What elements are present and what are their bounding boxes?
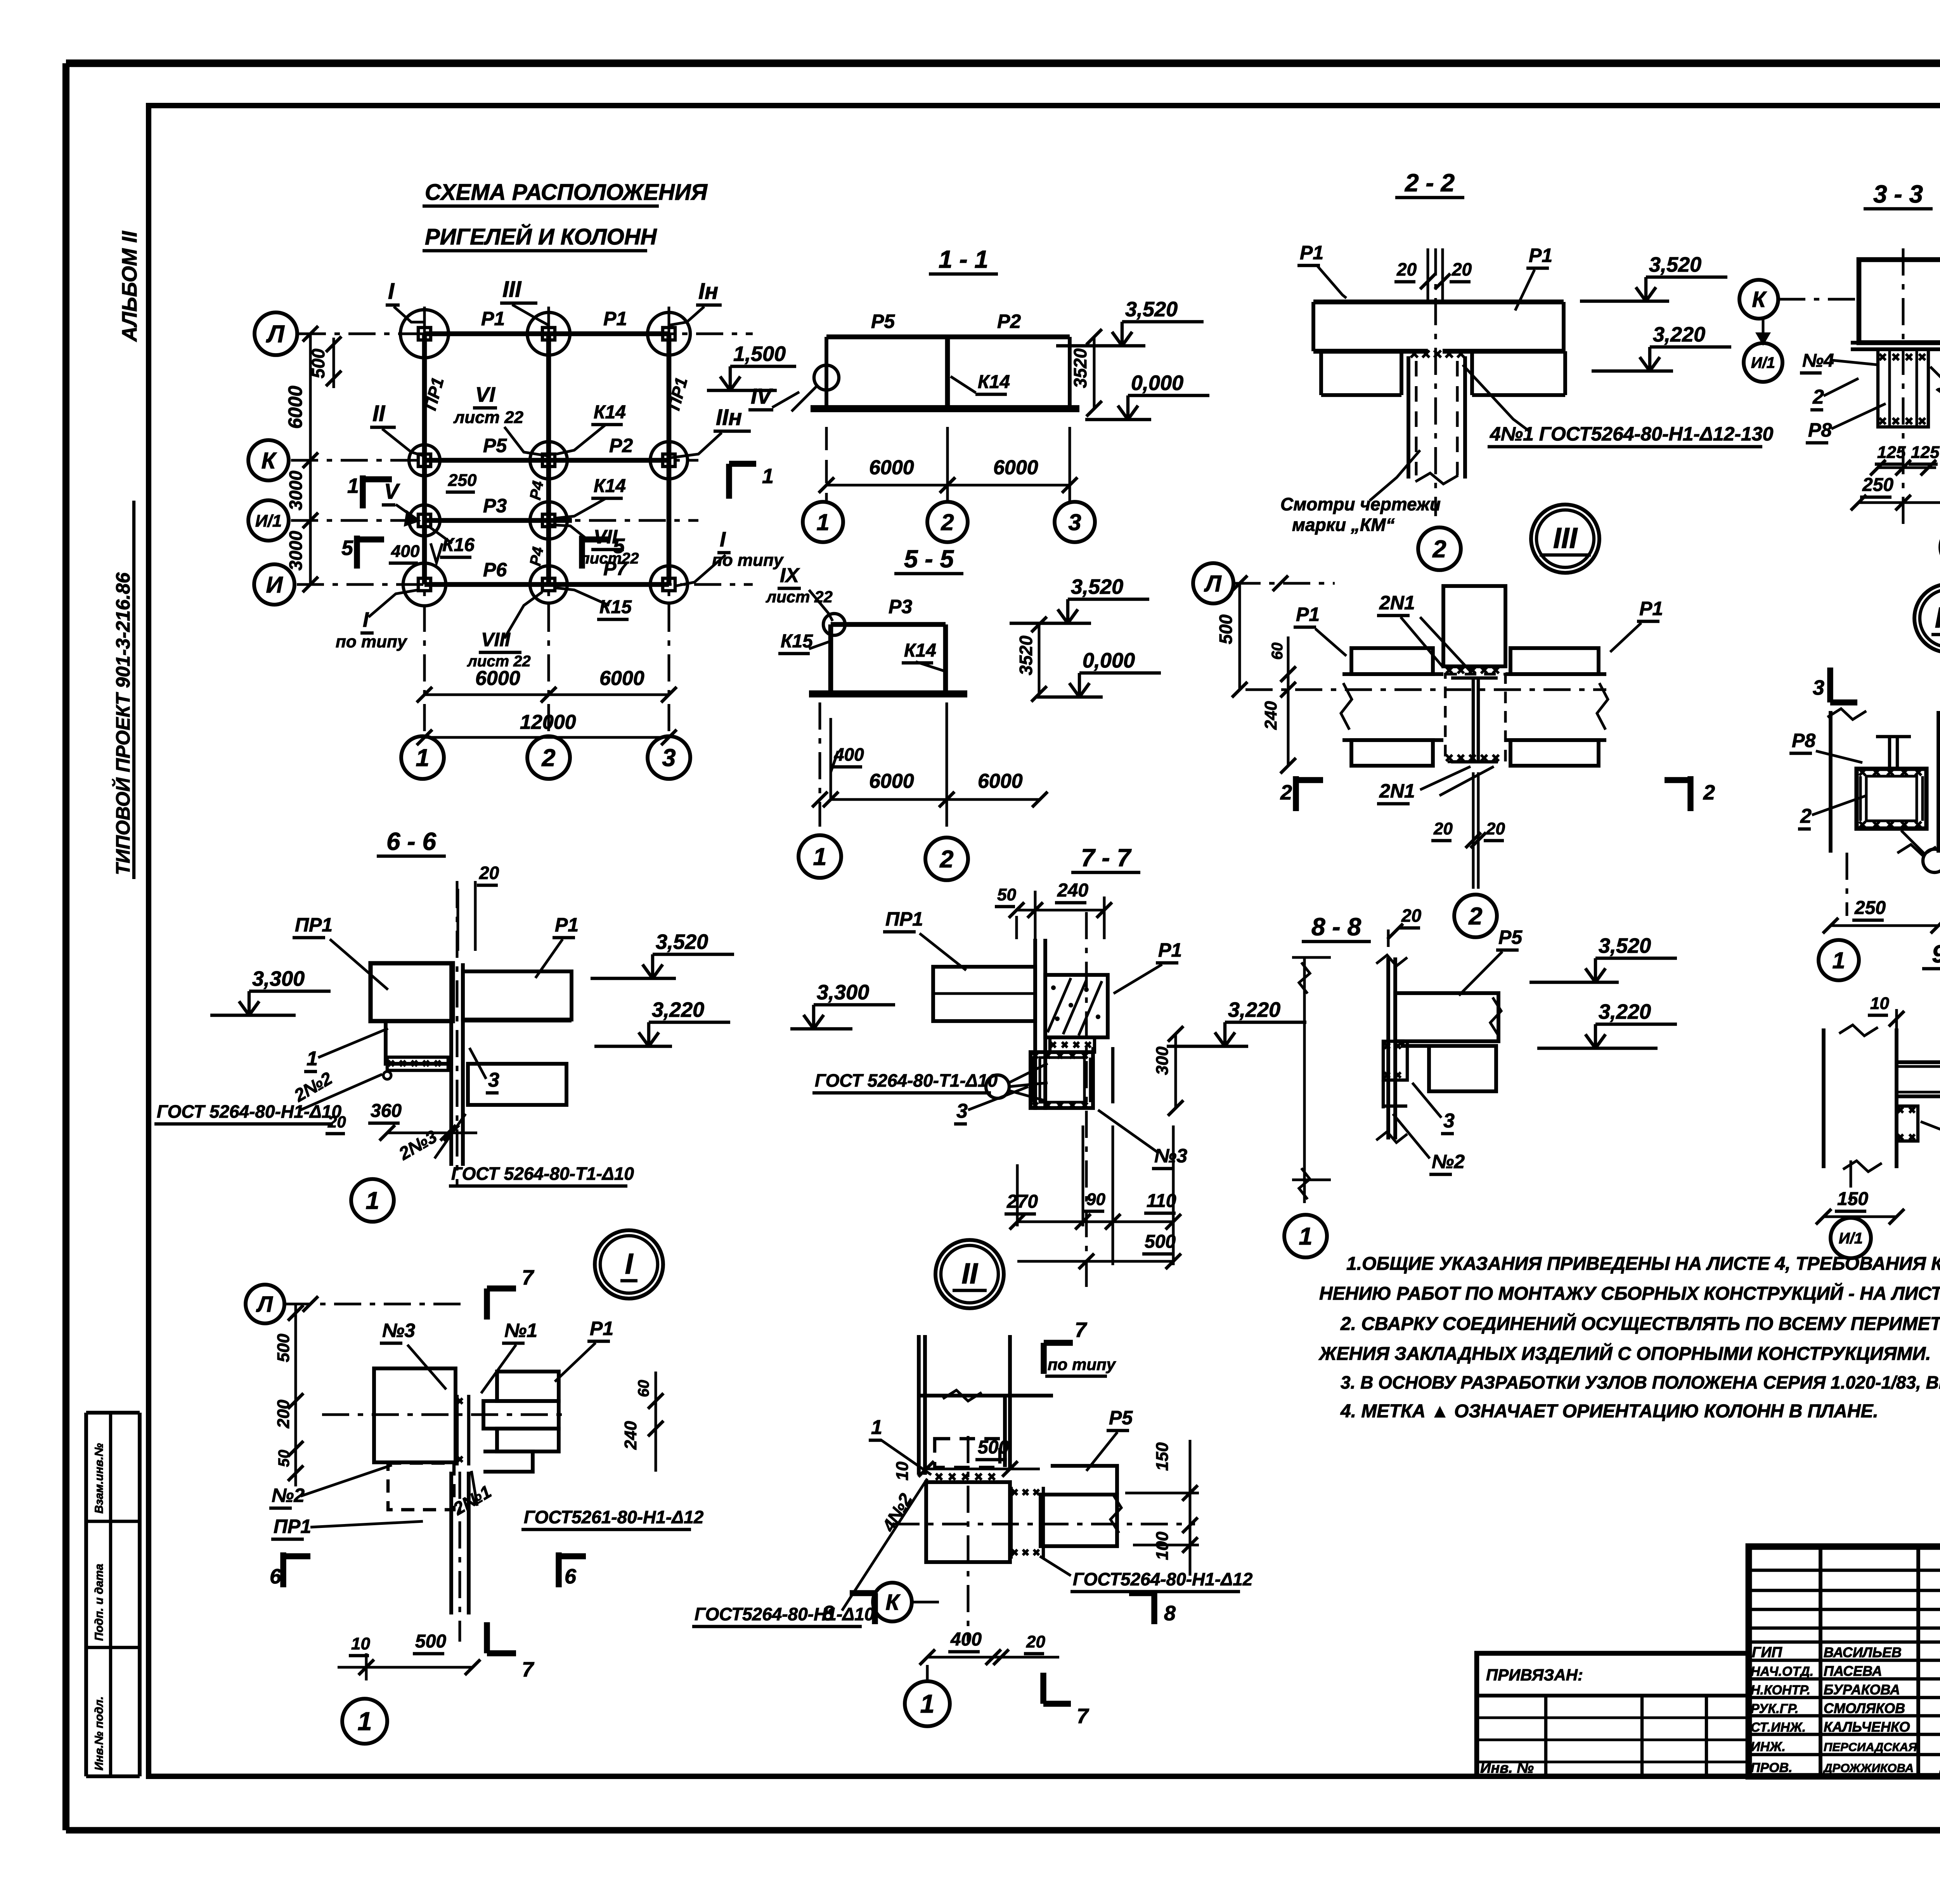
node I section marker 7 top	[487, 1266, 535, 1320]
section 8-8 levels	[1529, 934, 1677, 1048]
svg-text:3520: 3520	[1070, 348, 1090, 388]
svg-text:Р1: Р1	[1300, 242, 1323, 264]
section 1-1 bubble 3	[1055, 501, 1095, 542]
section 8-8 wall	[1376, 955, 1407, 1143]
svg-text:по типу: по типу	[712, 551, 784, 570]
node I dims left	[274, 1304, 303, 1486]
svg-text:БУРАКОВА: БУРАКОВА	[1824, 1682, 1900, 1698]
node callout II	[370, 401, 424, 456]
node I callout ПР1	[271, 1516, 423, 1539]
plan column node	[409, 505, 440, 536]
svg-text:20: 20	[479, 863, 499, 883]
beam Р4 axis 2	[546, 334, 551, 584]
svg-text:8: 8	[823, 1602, 834, 1625]
svg-text:Р1: Р1	[481, 308, 505, 329]
section 9-9 bracket	[1897, 1106, 1918, 1141]
svg-text:НЕНИЮ РАБОТ ПО МОНТАЖУ СБО: НЕНИЮ РАБОТ ПО МОНТАЖУ СБОРНЫХ КОНСТРУКЦ…	[1319, 1283, 1940, 1304]
node II bottom dims 400 20	[920, 1629, 1059, 1680]
section 6-6 beam Р1 right	[463, 971, 572, 1105]
svg-text:ВАСИЛЬЕВ: ВАСИЛЬЕВ	[1824, 1644, 1902, 1660]
section 5-5 bottom dims	[812, 702, 1048, 827]
svg-text:по типу: по типу	[336, 632, 408, 651]
svg-text:VI: VI	[475, 383, 495, 406]
beam line row К	[424, 458, 669, 463]
section 6-6 callout ПР1	[293, 914, 388, 990]
section 6-6 bubble 1	[351, 1179, 394, 1222]
svg-text:Р5: Р5	[1109, 1407, 1133, 1429]
svg-text:V: V	[384, 479, 400, 503]
node callout IIн	[669, 405, 751, 458]
section 5-5 frame	[809, 624, 967, 694]
beam line row Л	[424, 331, 669, 336]
svg-text:0,000: 0,000	[1083, 649, 1135, 672]
plan bottom dim 12000	[417, 711, 677, 745]
svg-text:IX: IX	[780, 564, 800, 587]
section 7-7 callout 3	[954, 1087, 1028, 1124]
svg-text:РИГЕЛЕЙ И КОЛОНН: РИГЕЛЕЙ И КОЛОНН	[425, 224, 657, 250]
svg-text:Р1: Р1	[1158, 939, 1182, 961]
node III plan dim 20 20 bottom	[1431, 772, 1505, 889]
svg-text:6000: 6000	[599, 667, 644, 690]
svg-text:Р1: Р1	[590, 1318, 613, 1339]
node II column box	[892, 1436, 1195, 1642]
grid bubble К	[248, 440, 289, 480]
node III plan axis Л bubble	[1193, 563, 1335, 603]
general notes	[1318, 1254, 1940, 1422]
svg-text:VIII: VIII	[481, 629, 511, 650]
section 6-6 callout 1	[304, 1028, 388, 1072]
svg-text:Р2: Р2	[609, 435, 633, 456]
svg-text:5: 5	[341, 536, 353, 560]
svg-text:ДРОЖЖИКОВА: ДРОЖЖИКОВА	[1822, 1761, 1914, 1775]
svg-text:№4: №4	[1802, 350, 1834, 371]
node I callout №1	[481, 1320, 537, 1393]
section 5-5 callout К15	[778, 631, 831, 654]
section 7-7 beam ПР1	[933, 967, 1035, 1021]
svg-text:1: 1	[347, 474, 359, 498]
beam line row И	[424, 582, 669, 587]
svg-text:3,220: 3,220	[1599, 1000, 1651, 1023]
svg-text:Взам.инв.№: Взам.инв.№	[93, 1443, 106, 1514]
plan column node	[409, 445, 440, 476]
node I column below	[388, 1463, 469, 1642]
section 2-2 note Смотри чертежи марки КМ	[1280, 450, 1441, 535]
svg-text:И/1: И/1	[1839, 1230, 1863, 1247]
svg-text:400: 400	[834, 744, 864, 765]
svg-text:125: 125	[1877, 443, 1906, 462]
node II dims 10 500 top	[893, 1437, 1040, 1481]
svg-text:6000: 6000	[475, 667, 520, 690]
node III plan label Р1 left	[1294, 603, 1346, 656]
plan column node	[530, 502, 567, 539]
svg-text:90: 90	[1086, 1190, 1105, 1209]
svg-text:1: 1	[357, 1707, 372, 1736]
section 1-1 bottom dims	[819, 427, 1077, 501]
grid bubble И	[254, 564, 294, 605]
svg-text:270: 270	[1006, 1191, 1038, 1212]
svg-text:IV: IV	[751, 384, 773, 408]
svg-text:I: I	[625, 1247, 634, 1280]
svg-text:Р5: Р5	[483, 435, 507, 456]
svg-text:1: 1	[871, 1416, 882, 1439]
svg-text:3,300: 3,300	[817, 981, 869, 1004]
svg-text:К: К	[885, 1590, 901, 1615]
plan axis И	[297, 583, 753, 586]
svg-text:К14: К14	[978, 372, 1010, 392]
node callout III top	[500, 277, 549, 325]
svg-text:ПРОВ.: ПРОВ.	[1751, 1760, 1793, 1775]
plan axis 2	[547, 307, 550, 734]
node IV wall	[1827, 709, 1938, 916]
plan column node	[403, 563, 446, 606]
section 7-7 dims 50 240 top	[995, 880, 1112, 939]
section 9-9 dim 10	[1868, 994, 1904, 1028]
svg-text:ГОСТ5264-80-Н1-Δ10: ГОСТ5264-80-Н1-Δ10	[695, 1604, 875, 1624]
section 7-7 concrete beam Р1 hatched	[1045, 975, 1108, 1037]
section 2-2 column	[1408, 350, 1465, 484]
section 5-5 bubble 2	[925, 838, 968, 880]
node I column	[322, 1368, 570, 1462]
svg-text:II: II	[961, 1257, 979, 1290]
svg-text:10: 10	[1870, 994, 1889, 1013]
svg-text:10: 10	[351, 1634, 370, 1653]
section 5-5 callout IX лист 22	[766, 564, 833, 621]
node IV bubble 1	[1819, 940, 1859, 980]
svg-text:250: 250	[1862, 475, 1893, 495]
node II section marker 7 bottom	[1043, 1673, 1090, 1728]
svg-text:ПР1: ПР1	[274, 1516, 311, 1537]
node I section marker 6 left	[270, 1552, 310, 1588]
svg-text:ПРИВЯЗАН:: ПРИВЯЗАН:	[1486, 1666, 1583, 1684]
node I section marker 7 bottom	[487, 1622, 535, 1681]
svg-text:240: 240	[1261, 701, 1280, 730]
svg-text:лист22: лист22	[579, 550, 639, 567]
svg-text:Р1: Р1	[1529, 245, 1552, 266]
svg-text:3,520: 3,520	[656, 930, 708, 954]
svg-text:ИНЖ.: ИНЖ.	[1751, 1739, 1786, 1754]
svg-text:РУК.ГР.: РУК.ГР.	[1751, 1701, 1799, 1716]
svg-text:IIн: IIн	[716, 405, 742, 430]
node III plan label Р1 right	[1610, 598, 1663, 652]
svg-text:по типу: по типу	[1048, 1355, 1117, 1373]
section 8-8 callout Р5	[1459, 926, 1523, 995]
svg-text:Смотри чертежи: Смотри чертежи	[1280, 494, 1441, 514]
plan column node	[650, 442, 688, 479]
svg-text:1 - 1: 1 - 1	[939, 245, 988, 273]
node callout VII лист 22	[549, 525, 639, 567]
svg-text:ЖЕНИЯ ЗАКЛАДНЫХ ИЗДЕЛИЙ С: ЖЕНИЯ ЗАКЛАДНЫХ ИЗДЕЛИЙ С ОПОРНЫМИ КОНСТ…	[1318, 1343, 1931, 1364]
node II dims right 150 100	[1125, 1440, 1199, 1576]
svg-text:IV: IV	[1935, 601, 1940, 634]
section 8-8 callout №2	[1393, 1114, 1465, 1174]
grid bubble 1 bottom	[401, 736, 444, 779]
svg-text:3. В ОСНОВУ РАЗРАБОТКИ УЗЛО: 3. В ОСНОВУ РАЗРАБОТКИ УЗЛОВ ПОЛОЖЕНА СЕ…	[1341, 1372, 1940, 1392]
svg-text:10: 10	[893, 1462, 912, 1481]
svg-text:№2: №2	[272, 1484, 305, 1506]
top band line	[149, 103, 1940, 108]
binding box	[1477, 1653, 1749, 1776]
node I bubble 1	[342, 1699, 387, 1744]
left strip table	[86, 1413, 140, 1776]
svg-text:400: 400	[391, 542, 420, 561]
section 3-3 column	[1851, 260, 1940, 349]
svg-text:2: 2	[941, 509, 954, 535]
node II bubble 1	[905, 1681, 950, 1726]
node III plan dim 500	[1216, 576, 1247, 697]
section 1-1 dim 3520	[1070, 329, 1102, 416]
svg-text:1: 1	[920, 1690, 934, 1718]
svg-text:2: 2	[1703, 781, 1715, 804]
node circle I	[595, 1230, 663, 1299]
svg-text:СХЕМА РАСПОЛОЖЕНИЯ: СХЕМА РАСПОЛОЖЕНИЯ	[425, 180, 708, 205]
section 2-2 slab beams	[1313, 302, 1565, 395]
section 8-8 dim line left	[1292, 957, 1331, 1203]
plan column node	[530, 442, 567, 479]
section marker 1 left plan	[347, 474, 392, 508]
section 8-8 callout 3	[1412, 1083, 1455, 1134]
svg-text:240: 240	[621, 1421, 640, 1450]
svg-text:4. МЕТКА ▲ ОЗНАЧАЕТ ОРИЕНТАЦ: 4. МЕТКА ▲ ОЗНАЧАЕТ ОРИЕНТАЦИЮ КОЛОНН В …	[1340, 1401, 1878, 1422]
svg-text:К14: К14	[594, 402, 626, 423]
section marker 1 right plan	[729, 464, 774, 499]
svg-text:6000: 6000	[284, 386, 306, 429]
svg-text:№3: №3	[382, 1320, 415, 1341]
signature rows	[1751, 1640, 1940, 1775]
svg-text:Н.КОНТР.: Н.КОНТР.	[1751, 1683, 1810, 1698]
svg-text:ПР1: ПР1	[295, 914, 333, 936]
node II right plate	[1011, 1487, 1043, 1559]
section 2-2 column axis	[1434, 248, 1437, 516]
node II callout 1	[869, 1416, 931, 1475]
svg-text:КАЛЬЧЕНКО: КАЛЬЧЕНКО	[1824, 1719, 1910, 1735]
svg-text:Л: Л	[256, 1292, 273, 1317]
svg-text:3,520: 3,520	[1599, 934, 1651, 957]
svg-text:1: 1	[1299, 1223, 1312, 1250]
plan bottom dim 6000 span2	[541, 667, 677, 702]
grid bubble Л	[255, 312, 297, 355]
node I weld callout 2№1	[449, 1471, 704, 1529]
svg-text:1: 1	[416, 744, 429, 772]
section marker 3 left	[1813, 668, 1857, 702]
svg-text:Л: Л	[1204, 571, 1222, 597]
section 5-5 callout К14	[902, 640, 946, 671]
section 3-3 dim 250	[1851, 475, 1940, 510]
svg-text:20: 20	[1452, 259, 1472, 279]
svg-text:ГОСТ 5264-80-Т1-Δ10: ГОСТ 5264-80-Т1-Δ10	[451, 1164, 634, 1184]
svg-text:2N1: 2N1	[1379, 780, 1415, 802]
node IV callout 2	[1798, 796, 1866, 829]
node II weld callout ГОСТ Н1-Δ10 left	[692, 1479, 927, 1627]
svg-text:500: 500	[1145, 1231, 1176, 1252]
svg-text:НАЧ.ОТД.: НАЧ.ОТД.	[1751, 1664, 1814, 1679]
node III plan dims 60 240	[1261, 636, 1296, 773]
svg-text:2: 2	[1812, 386, 1824, 408]
svg-text:6000: 6000	[993, 456, 1038, 479]
svg-text:60: 60	[1269, 643, 1286, 660]
svg-text:3: 3	[488, 1069, 499, 1091]
plan column node	[527, 312, 570, 355]
section 1-1 column callout К14	[951, 372, 1010, 394]
svg-text:ТИПОВОЙ ПРОЕКТ 901-3-216.86: ТИПОВОЙ ПРОЕКТ 901-3-216.86	[112, 572, 134, 875]
svg-text:6 - 6: 6 - 6	[386, 827, 436, 855]
svg-text:3,520: 3,520	[1649, 253, 1701, 276]
svg-text:8 - 8: 8 - 8	[1311, 913, 1361, 941]
section 5-5 weld circle	[823, 614, 845, 635]
svg-text:5 - 5: 5 - 5	[904, 545, 954, 573]
svg-text:2: 2	[1432, 536, 1446, 563]
section marker 5 right plan	[582, 534, 625, 569]
svg-text:20: 20	[327, 1113, 346, 1131]
svg-text:2 - 2: 2 - 2	[1405, 169, 1455, 197]
svg-text:3520: 3520	[1016, 635, 1036, 675]
node II weld callout ГОСТ Н1-Δ12	[1040, 1556, 1253, 1592]
svg-text:240: 240	[1057, 880, 1088, 901]
svg-text:20: 20	[1396, 259, 1417, 279]
svg-text:110: 110	[1147, 1191, 1176, 1211]
node callout I по типу right	[675, 528, 784, 586]
section 7-7 callout №3	[1098, 1110, 1187, 1169]
svg-text:500: 500	[1216, 614, 1236, 644]
svg-text:20: 20	[1401, 905, 1422, 926]
svg-text:9 - 9: 9 - 9	[1932, 940, 1940, 968]
svg-text:Инв. №: Инв. №	[1480, 1760, 1534, 1776]
svg-text:К: К	[262, 447, 277, 473]
svg-text:I: I	[363, 608, 369, 631]
plan column node	[530, 566, 567, 603]
section 9-9 callout 5	[1921, 1122, 1940, 1149]
svg-text:Р8: Р8	[1808, 419, 1832, 441]
svg-text:250: 250	[448, 471, 477, 490]
svg-text:Р1: Р1	[1639, 598, 1663, 619]
svg-text:20: 20	[1026, 1632, 1045, 1651]
svg-text:СТ.ИНЖ.: СТ.ИНЖ.	[1751, 1720, 1806, 1735]
section 7-7 weld callout ГОСТ Т1	[812, 1063, 1048, 1100]
svg-text:2: 2	[1468, 903, 1482, 930]
section 3-3 weld callout 2№4	[1930, 367, 1940, 416]
section 6-6 dim 20 top	[458, 863, 499, 951]
node I axis Л bubble	[246, 1285, 462, 1323]
plan axis Л	[299, 333, 753, 335]
svg-text:3 - 3: 3 - 3	[1873, 180, 1923, 208]
svg-text:II: II	[372, 401, 386, 426]
svg-text:Р6: Р6	[483, 559, 507, 581]
svg-text:0,000: 0,000	[1131, 371, 1183, 395]
node I callout №3	[380, 1320, 446, 1389]
plan axis 1	[423, 307, 426, 734]
svg-text:И/1: И/1	[255, 512, 282, 531]
svg-text:7 - 7: 7 - 7	[1081, 844, 1132, 872]
svg-text:3000: 3000	[286, 470, 306, 510]
plan axis К	[291, 459, 698, 462]
svg-text:ПР1: ПР1	[885, 908, 923, 930]
node II К bubble	[873, 1583, 947, 1621]
node I weld strip	[457, 1395, 469, 1465]
section 2-2 weld callout	[1463, 365, 1774, 447]
svg-text:III: III	[502, 277, 522, 302]
plan dim 400	[389, 542, 442, 563]
svg-text:200: 200	[274, 1399, 293, 1429]
title block frame	[1749, 1547, 1940, 1776]
node III plan axis horizontal	[1245, 688, 1606, 691]
section 7-7 bearing plates	[1050, 1037, 1095, 1052]
node I bottom dims 10 500	[338, 1631, 480, 1680]
node III plan column top	[1443, 586, 1505, 673]
plan left dim 500	[308, 336, 341, 388]
node I callout №2	[269, 1465, 392, 1508]
section 6-6 callout 3	[469, 1048, 499, 1093]
svg-text:ГОСТ5264-80-Н1-Δ12: ГОСТ5264-80-Н1-Δ12	[1073, 1569, 1253, 1589]
svg-text:20: 20	[1433, 819, 1453, 838]
svg-text:3,220: 3,220	[1653, 323, 1705, 346]
svg-text:5: 5	[613, 534, 625, 558]
svg-text:К14: К14	[594, 476, 626, 496]
svg-text:3,300: 3,300	[252, 967, 305, 990]
svg-text:И/1: И/1	[1751, 354, 1775, 371]
svg-text:7: 7	[522, 1266, 535, 1289]
svg-text:№3: №3	[1154, 1145, 1187, 1167]
svg-text:К15: К15	[781, 631, 813, 652]
svg-text:III: III	[1553, 522, 1578, 554]
section 9-9 dim 150	[1816, 1189, 1904, 1224]
callout К14 lower	[556, 476, 626, 518]
section 1-1 bubble 1	[803, 501, 843, 542]
section 3-3 axis vertical	[1902, 248, 1905, 528]
plan axis 3	[668, 307, 670, 734]
grid bubble И/1	[248, 500, 289, 541]
svg-text:8: 8	[1164, 1602, 1176, 1625]
plan bottom dim 6000 span1	[417, 667, 556, 702]
svg-text:360: 360	[371, 1101, 402, 1121]
section 7-7 dim 300	[1153, 1026, 1183, 1116]
node callout VI лист 22	[453, 383, 549, 456]
section 7-7 callout ПР1	[883, 908, 966, 970]
svg-text:ГИП: ГИП	[1752, 1644, 1782, 1661]
node callout I по типу bottom	[336, 590, 418, 651]
svg-text:№2: №2	[1432, 1151, 1465, 1172]
node I dims right 60 240	[621, 1372, 663, 1472]
svg-text:3: 3	[956, 1100, 968, 1122]
svg-text:3,520: 3,520	[1125, 298, 1178, 321]
callout К14 upper	[556, 402, 626, 454]
section marker 5 left plan	[341, 536, 384, 569]
section 6-6 dims 20 360	[326, 1101, 477, 1141]
section 6-6 weld callout left	[154, 1068, 391, 1124]
svg-text:3,520: 3,520	[1071, 575, 1123, 598]
section 6-6 beam ПР1 section	[371, 963, 453, 1070]
svg-text:Iн: Iн	[698, 279, 718, 304]
node III plan label 2N1 top	[1377, 592, 1471, 671]
section 7-7 side plate	[1093, 1047, 1113, 1103]
section 3-3 dims 125 125	[1870, 443, 1940, 475]
svg-text:марки „КМ“: марки „КМ“	[1292, 515, 1395, 535]
section 3-3 grid bubbles К И/1	[1739, 280, 1859, 382]
node II marker 7 по типу	[1044, 1318, 1117, 1376]
svg-text:1: 1	[813, 843, 826, 870]
section 7-7 column section box	[1031, 1052, 1093, 1108]
svg-text:лист 22: лист 22	[453, 408, 524, 427]
svg-text:2: 2	[541, 744, 555, 772]
svg-text:И: И	[266, 572, 283, 598]
svg-text:2N1: 2N1	[1379, 592, 1415, 614]
svg-text:Р1: Р1	[603, 308, 627, 329]
section 2-2 top dim 20 20	[1394, 248, 1472, 302]
section 8-8 corbel	[1383, 1041, 1407, 1108]
plan column node	[650, 566, 688, 603]
svg-text:Инв.№ подл.: Инв.№ подл.	[93, 1696, 106, 1770]
node III plan bubble 2	[1454, 895, 1497, 937]
node II dashed plate	[935, 1439, 1000, 1467]
section 3-3 bearing detail	[1878, 349, 1928, 427]
